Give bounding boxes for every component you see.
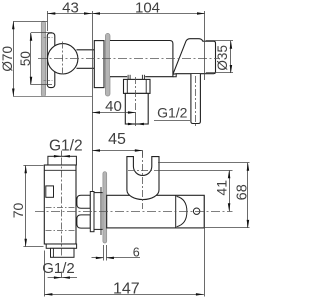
svg-text:G1/2: G1/2 [49, 138, 83, 155]
svg-text:41: 41 [214, 180, 230, 196]
svg-text:Ø35: Ø35 [215, 45, 230, 71]
svg-text:45: 45 [108, 131, 126, 148]
svg-text:50: 50 [18, 51, 33, 66]
svg-text:Ø70: Ø70 [0, 46, 15, 72]
svg-text:147: 147 [113, 281, 140, 298]
svg-text:6: 6 [133, 246, 140, 260]
svg-text:G1/2: G1/2 [42, 260, 75, 277]
svg-text:104: 104 [135, 0, 160, 17]
svg-text:43: 43 [62, 0, 79, 17]
svg-text:70: 70 [10, 203, 26, 219]
svg-text:68: 68 [234, 184, 250, 200]
svg-text:40: 40 [105, 98, 122, 115]
svg-text:G1/2: G1/2 [157, 104, 188, 120]
